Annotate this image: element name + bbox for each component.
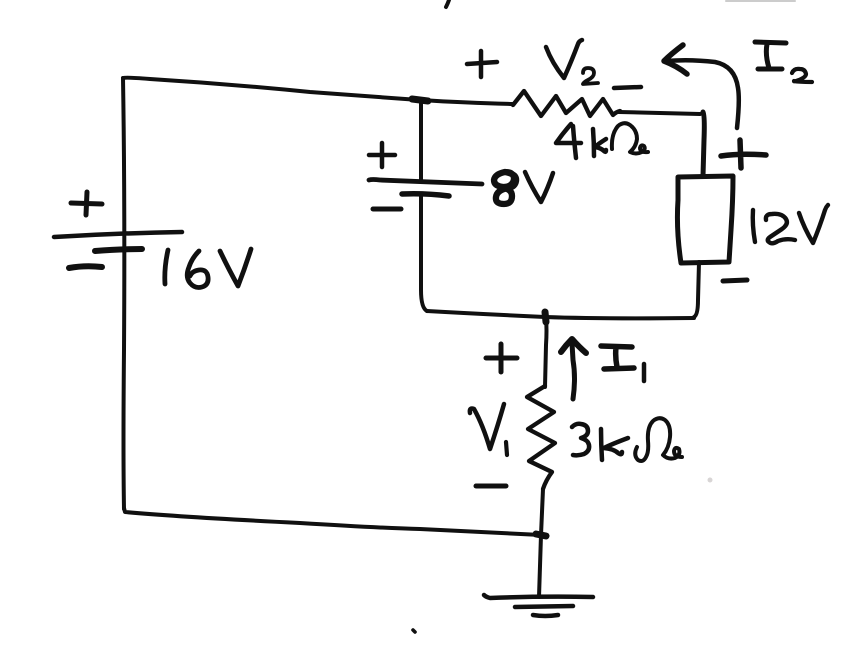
- voltage source 12V box: [677, 176, 733, 263]
- wire top from left corner to node A: [123, 78, 419, 100]
- node A junction: [412, 99, 428, 101]
- node C junction blob: [536, 534, 546, 536]
- ground line 2: [515, 606, 573, 607]
- plus label 12V top: [721, 140, 766, 168]
- plus label 8V: [369, 143, 395, 167]
- wire node B down to resistor R1: [545, 318, 547, 387]
- battery 16V long plate: [54, 232, 182, 237]
- paper speck: [708, 478, 713, 483]
- wire corner down into 12V source: [703, 112, 704, 176]
- wire resistor R2 to top-right corner: [619, 112, 700, 114]
- minus label V2: [614, 87, 641, 88]
- label 3kohm: [572, 418, 682, 461]
- ink dot bottom: [413, 630, 415, 632]
- label 4kohm: [556, 123, 648, 158]
- resistor R2 4kohm zigzag: [513, 91, 620, 116]
- label I2: [755, 42, 812, 82]
- wire middle branch lower vertical (below 8V battery): [421, 194, 427, 311]
- arrowhead I2: [664, 45, 687, 74]
- label V1: [470, 404, 507, 455]
- stray mark top edge left: [446, 0, 449, 7]
- minus label 12V bottom: [723, 280, 747, 281]
- plus label V2: [467, 51, 497, 77]
- minus label 8V: [373, 207, 401, 212]
- minus label V1: [476, 484, 506, 489]
- battery 8V long plate: [369, 180, 482, 185]
- arrowhead I1: [561, 339, 586, 353]
- outer bottom wire from left corner to node C: [124, 508, 541, 535]
- wire node C down to ground: [539, 535, 541, 597]
- current arrow I1: [572, 343, 575, 399]
- ground line 1: [484, 595, 593, 598]
- current arrow I2 curved: [666, 60, 739, 128]
- label 8V: [494, 172, 553, 204]
- battery 8V short plate: [402, 194, 449, 196]
- stray mark top edge right: [726, 0, 795, 2]
- resistor R1 3kohm zigzag: [527, 386, 555, 489]
- minus label 16V: [69, 266, 102, 268]
- plus label V1: [486, 344, 517, 372]
- ground line 3: [533, 615, 558, 616]
- battery 16V short plate: [95, 249, 142, 251]
- label 16V: [165, 249, 251, 288]
- wire resistor R1 down to node C: [541, 489, 543, 535]
- wire left vertical of outer loop: [123, 78, 124, 509]
- plus label 16V: [71, 192, 102, 215]
- label 12V: [753, 205, 828, 243]
- label I1: [601, 346, 644, 381]
- wire node A to resistor R2 left: [419, 100, 513, 104]
- label V2: [546, 40, 598, 84]
- inner bottom wire: [427, 311, 694, 318]
- node junction B on inner bottom wire: [545, 312, 546, 322]
- wire 12V source bottom down to inner bottom wire: [694, 262, 699, 317]
- wire 8V battery up to node A: [419, 100, 423, 181]
